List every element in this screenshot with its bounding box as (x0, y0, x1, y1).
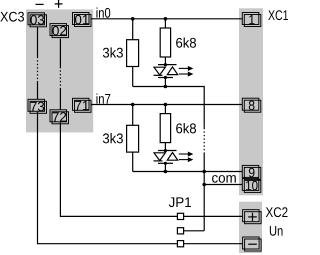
label XC3 (0, 12, 24, 22)
XC3 pin 02 (50, 24, 69, 38)
wire net in0 horizontal (91, 18, 243, 20)
jumper JP1 pad 3 (177, 241, 183, 247)
XC3 pin 01 (73, 13, 92, 27)
resistor R2 value 6k8 (176, 37, 196, 47)
label Un (270, 226, 283, 236)
node label in7 (96, 93, 110, 103)
resistor R3 3k3 stub top (132, 105, 134, 126)
junction dot rail2/com vertical (202, 170, 206, 174)
wire net in7 horizontal (91, 104, 243, 106)
wire rail cell in7 bottom (com rail) (133, 171, 243, 173)
junction dot com/pin10 tee (202, 183, 206, 187)
XC3 pin 72 (50, 110, 69, 124)
resistor R3 3k3 body (127, 125, 139, 152)
connector XC3 body (26, 9, 93, 132)
resistor R4 value 6k8 (176, 123, 196, 133)
wire jumper pad3 to XC2 minus (184, 243, 243, 245)
wire XC3 pin 72 down to jumper row 1 (60, 122, 177, 216)
resistor R4 6k8 body (160, 114, 170, 143)
junction dot in7/R4 (164, 103, 168, 107)
junction dot in7/R3 (131, 103, 135, 107)
node label com (212, 175, 236, 183)
jumper JP1 label (169, 197, 191, 207)
LED pair D2 (anti-parallel) (154, 143, 178, 172)
XC3 pin 71 (73, 98, 92, 112)
junction dot LED D2 bottom (164, 162, 167, 165)
XC1 pin 1 (242, 13, 260, 27)
junction dot rail2/LED (164, 170, 168, 174)
connector XC2 body (239, 202, 262, 253)
wire jumper pad1 to XC2 plus (184, 215, 243, 217)
XC2 terminal plus (243, 210, 262, 224)
LED D2 emission arrows (179, 152, 192, 161)
XC1 pin 8 (242, 98, 260, 112)
resistor R4 6k8 stub top (164, 105, 166, 114)
junction dot in0/R1 (131, 17, 135, 21)
jumper JP1 pad 1 (177, 213, 183, 219)
resistor R1 3k3 stub top (132, 19, 134, 40)
label XC1 (268, 10, 288, 20)
LED D1 emission arrows (179, 67, 192, 76)
node label in0 (96, 7, 110, 17)
polarity plus above XC3 column 02/72 (55, 0, 63, 8)
wire dash-dot link pin02 to pin72 (59, 39, 61, 110)
wire com to pin 10 (204, 184, 242, 186)
resistor R2 6k8 body (160, 28, 170, 57)
junction dot LED D1 bottom (164, 76, 167, 79)
wire XC3 pin 73 down to jumper row 3 (38, 112, 178, 244)
wire com vertical (with dotted continuation) (203, 105, 205, 231)
XC2 terminal minus (243, 237, 262, 251)
jumper JP1 pad 2 (177, 228, 183, 234)
connector XC1 body (239, 8, 263, 195)
junction dot LED D2 top (164, 149, 167, 152)
resistor R3 value 3k3 (103, 133, 123, 143)
resistor R1 3k3 body (127, 40, 139, 67)
resistor R3 stub bottom (132, 152, 134, 171)
wire jumper pad2 to com vertical (184, 230, 205, 232)
XC3 pin 73 (28, 99, 47, 113)
resistor R1 stub bottom (132, 67, 134, 87)
polarity minus above XC3 column 03/73 (36, 3, 44, 5)
resistor R2 6k8 stub top (164, 19, 166, 28)
LED pair D1 (anti-parallel) (154, 57, 178, 87)
wire rail cell in0 bottom (133, 87, 205, 105)
junction dot LED D1 top (164, 63, 167, 66)
resistor R1 value 3k3 (103, 47, 123, 57)
label XC2 (266, 207, 288, 217)
XC3 pin 03 (28, 13, 47, 27)
junction dot in0/R2 (164, 17, 168, 21)
XC1 pin 9 (242, 165, 260, 179)
wire dash-dot link pin03 to pin73 (37, 27, 39, 100)
junction dot rail1/LED (164, 85, 168, 89)
XC1 pin 10 (242, 178, 260, 192)
